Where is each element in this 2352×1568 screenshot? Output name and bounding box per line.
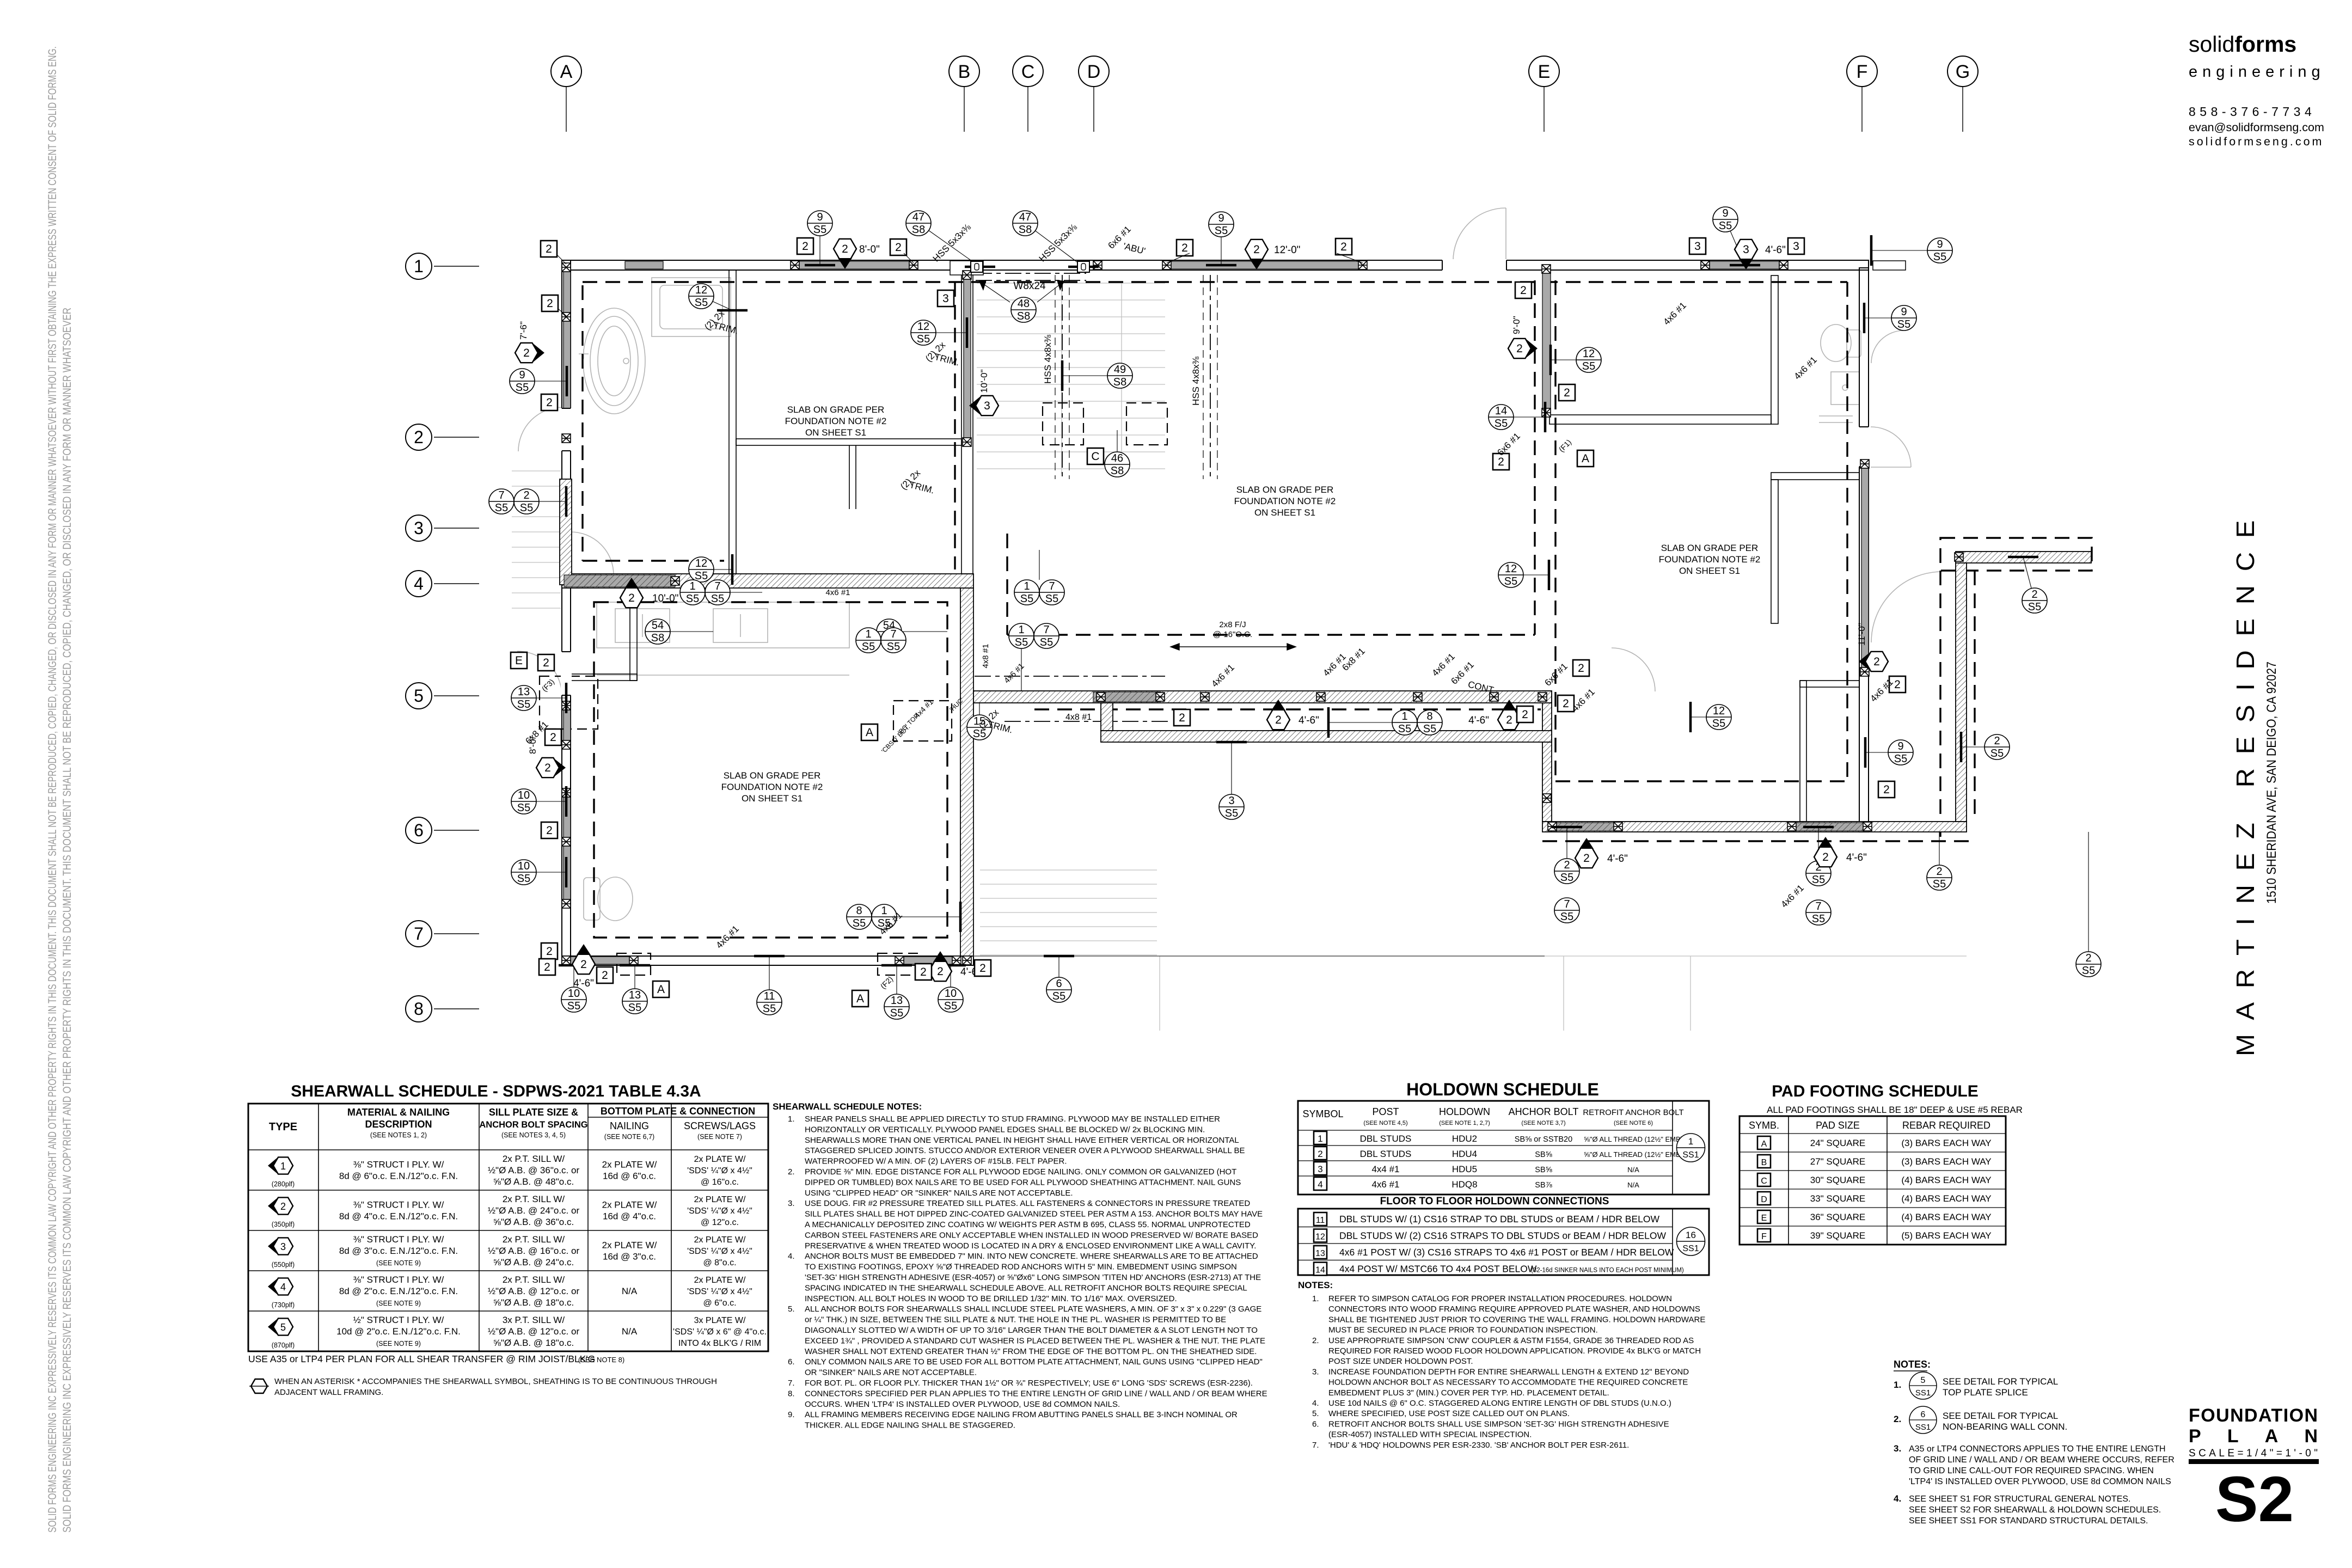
svg-text:SB⅝: SB⅝	[1535, 1150, 1552, 1159]
svg-text:E: E	[515, 654, 523, 667]
svg-text:8d @ 2"o.c. E.N./12"o.c. F.N.: 8d @ 2"o.c. E.N./12"o.c. F.N.	[339, 1286, 458, 1296]
door openings (wall cuts)	[1442, 259, 1506, 271]
svg-text:2: 2	[1340, 241, 1347, 253]
svg-text:13: 13	[629, 989, 641, 1001]
svg-text:2: 2	[1563, 697, 1569, 710]
svg-text:DBL STUDS W/ (1) CS16 STRAP TO: DBL STUDS W/ (1) CS16 STRAP TO DBL STUDS…	[1339, 1214, 1659, 1224]
wing inner dashed	[1846, 282, 1848, 779]
svg-text:HSS 4x8x⅜: HSS 4x8x⅜	[1043, 334, 1053, 384]
svg-text:'HDU' & 'HDQ' HOLDOWNS PER ESR: 'HDU' & 'HDQ' HOLDOWNS PER ESR-2330. 'SB…	[1328, 1441, 1629, 1450]
svg-text:ALL PAD FOOTINGS SHALL BE 18": ALL PAD FOOTINGS SHALL BE 18" DEEP & USE…	[1767, 1105, 2023, 1115]
svg-text:HSS 4x8x⅜: HSS 4x8x⅜	[1191, 356, 1201, 406]
svg-text:2: 2	[544, 762, 551, 774]
svg-text:SS1: SS1	[1915, 1388, 1931, 1398]
svg-text:S5: S5	[1504, 575, 1517, 587]
svg-text:USE A35 or LTP4 PER PLAN FOR A: USE A35 or LTP4 PER PLAN FOR ALL SHEAR T…	[248, 1353, 595, 1364]
svg-text:5.: 5.	[788, 1304, 795, 1314]
svg-text:½" STRUCT I PLY. W/: ½" STRUCT I PLY. W/	[353, 1315, 444, 1325]
svg-text:HOLDOWN ANCHOR BOLT AS NECESSA: HOLDOWN ANCHOR BOLT AS NECESSARY TO ACCO…	[1328, 1378, 1688, 1387]
svg-text:7'-6": 7'-6"	[518, 321, 529, 340]
svg-text:13: 13	[1315, 1249, 1325, 1258]
svg-text:3: 3	[942, 292, 949, 305]
svg-text:ON SHEET S1: ON SHEET S1	[805, 427, 866, 438]
svg-text:EMBEDMENT PLUS 3" (MIN.) COVER: EMBEDMENT PLUS 3" (MIN.) COVER PER TYP. …	[1328, 1388, 1609, 1398]
svg-text:(3) BARS EACH WAY: (3) BARS EACH WAY	[1901, 1138, 1991, 1148]
svg-text:SHEAR PANELS SHALL BE APPLIED: SHEAR PANELS SHALL BE APPLIED DIRECTLY T…	[805, 1114, 1220, 1124]
top exterior wall	[562, 260, 1869, 270]
svg-text:S5: S5	[567, 1000, 580, 1012]
svg-text:PRESERVATIVE & WHEN TREATED WO: PRESERVATIVE & WHEN TREATED WOOD IS LOCA…	[805, 1241, 1256, 1251]
svg-text:3: 3	[1694, 240, 1701, 253]
HSS4x8 columns dashdot	[1062, 275, 1063, 479]
svg-text:(SEE NOTE 4,5): (SEE NOTE 4,5)	[1363, 1120, 1407, 1126]
svg-text:2x P.T. SILL W/: 2x P.T. SILL W/	[503, 1234, 565, 1245]
svg-text:46: 46	[1111, 452, 1123, 464]
svg-text:S5: S5	[628, 1002, 641, 1014]
svg-text:S5: S5	[1560, 872, 1573, 884]
svg-text:REBAR REQUIRED: REBAR REQUIRED	[1902, 1120, 1990, 1131]
svg-text:S5: S5	[520, 502, 533, 514]
svg-text:(SEE NOTE 7): (SEE NOTE 7)	[697, 1133, 742, 1141]
svg-text:FLOOR TO FLOOR HOLDOWN CONNECT: FLOOR TO FLOOR HOLDOWN CONNECTIONS	[1380, 1196, 1609, 1207]
svg-text:2.: 2.	[788, 1167, 795, 1177]
svg-text:(280plf): (280plf)	[272, 1180, 295, 1188]
svg-text:2: 2	[1894, 678, 1901, 691]
svg-text:@ 8"o.c.: @ 8"o.c.	[703, 1258, 736, 1267]
svg-text:TOP PLATE SPLICE: TOP PLATE SPLICE	[1943, 1387, 2028, 1398]
upper-left room dashed	[581, 285, 583, 561]
svg-text:6.: 6.	[1312, 1419, 1319, 1429]
svg-text:NOTES:: NOTES:	[1298, 1280, 1333, 1290]
svg-text:S5: S5	[2082, 965, 2095, 977]
svg-text:HDU2: HDU2	[1452, 1134, 1477, 1144]
svg-text:2: 2	[1520, 284, 1527, 297]
svg-text:(4) BARS EACH WAY: (4) BARS EACH WAY	[1901, 1212, 1991, 1222]
svg-text:(4) BARS EACH WAY: (4) BARS EACH WAY	[1901, 1175, 1991, 1185]
svg-text:2x P.T. SILL W/: 2x P.T. SILL W/	[503, 1154, 565, 1164]
svg-text:48: 48	[1018, 298, 1030, 310]
svg-text:PAD FOOTING SCHEDULE: PAD FOOTING SCHEDULE	[1772, 1082, 1978, 1100]
svg-text:3.: 3.	[1312, 1367, 1319, 1376]
svg-text:S8: S8	[1111, 465, 1124, 477]
svg-text:1.: 1.	[788, 1114, 795, 1124]
svg-text:4'-6": 4'-6"	[1607, 853, 1628, 865]
svg-text:2: 2	[1564, 387, 1570, 399]
svg-text:7: 7	[414, 924, 424, 944]
svg-text:S5: S5	[1812, 913, 1825, 925]
svg-text:8'-0": 8'-0"	[859, 244, 880, 255]
svg-text:S5: S5	[917, 333, 930, 345]
interior wall horizontal T	[736, 439, 961, 445]
svg-text:9'-0": 9'-0"	[1511, 316, 1522, 334]
svg-text:2: 2	[550, 731, 556, 744]
svg-text:9: 9	[1897, 740, 1903, 752]
svg-text:4.: 4.	[1312, 1399, 1319, 1408]
svg-text:S5: S5	[853, 917, 866, 929]
svg-text:DIPPED OR TUMBLED) BOX NAILS A: DIPPED OR TUMBLED) BOX NAILS ARE TO BE U…	[805, 1178, 1241, 1187]
svg-text:USE 10d NAILS @ 6" O.C. STAGGE: USE 10d NAILS @ 6" O.C. STAGGERED ALONG …	[1328, 1399, 1671, 1408]
svg-text:S8: S8	[651, 632, 664, 644]
slab dashed line under top wall	[583, 281, 1847, 283]
svg-text:S8: S8	[1019, 224, 1032, 236]
svg-text:S5: S5	[1045, 593, 1058, 605]
svg-text:8: 8	[1426, 710, 1432, 722]
towel bars	[1819, 415, 1853, 416]
svg-text:2.: 2.	[1312, 1336, 1319, 1345]
gray shear panels: wing bottom	[1552, 823, 1619, 831]
svg-text:B: B	[1761, 1158, 1767, 1167]
svg-text:2: 2	[1181, 242, 1188, 254]
svg-text:DBL STUDS W/ (2) CS16 STRAPS T: DBL STUDS W/ (2) CS16 STRAPS TO DBL STUD…	[1339, 1230, 1666, 1241]
svg-text:2: 2	[580, 958, 587, 971]
svg-text:2x PLATE W/: 2x PLATE W/	[694, 1195, 746, 1204]
svg-text:POST SIZE UNDER HOLDOWN POST.: POST SIZE UNDER HOLDOWN POST.	[1328, 1357, 1473, 1366]
svg-text:(870plf): (870plf)	[272, 1342, 295, 1349]
svg-text:S5: S5	[517, 873, 530, 885]
site lines lower right	[1160, 955, 1967, 957]
svg-text:⅜" STRUCT I PLY. W/: ⅜" STRUCT I PLY. W/	[353, 1200, 444, 1210]
svg-text:S5: S5	[1215, 225, 1228, 237]
svg-text:2x PLATE W/: 2x PLATE W/	[694, 1155, 746, 1164]
svg-text:2: 2	[1873, 656, 1880, 668]
svg-text:DBL STUDS: DBL STUDS	[1360, 1134, 1412, 1144]
svg-text:12: 12	[1505, 563, 1517, 575]
svg-text:FOR BOT. PL. OR FLOOR PLY. TH: FOR BOT. PL. OR FLOOR PLY. THICKER THAN …	[805, 1379, 1253, 1388]
svg-text:SYMB.: SYMB.	[1749, 1120, 1779, 1131]
left wall hatched segment	[560, 479, 572, 585]
svg-text:REFER TO SIMPSON CATALOG FOR P: REFER TO SIMPSON CATALOG FOR PROPER INST…	[1328, 1294, 1672, 1303]
bathtub	[583, 308, 645, 414]
svg-text:1: 1	[414, 256, 424, 276]
svg-text:HOLDOWN SCHEDULE: HOLDOWN SCHEDULE	[1406, 1080, 1599, 1099]
svg-text:S8: S8	[1113, 376, 1126, 388]
svg-text:S8: S8	[1017, 310, 1030, 322]
wing bottom dashed	[1542, 840, 1971, 842]
svg-text:THICKER. ALL EDGE NAILING SHA: THICKER. ALL EDGE NAILING SHALL BE STAGG…	[805, 1421, 1015, 1430]
svg-text:S5: S5	[1225, 807, 1238, 819]
svg-text:A: A	[1761, 1140, 1767, 1149]
svg-text:SILL PLATE SIZE &: SILL PLATE SIZE &	[489, 1107, 578, 1118]
svg-text:4: 4	[280, 1282, 286, 1293]
svg-text:9: 9	[519, 369, 525, 381]
svg-text:S5: S5	[813, 224, 826, 236]
svg-text:S5: S5	[1990, 748, 2004, 759]
svg-text:REQUIRED FOR RAISED WOOD FLOOR: REQUIRED FOR RAISED WOOD FLOOR HOLDOWN A…	[1328, 1346, 1701, 1356]
svg-text:2: 2	[1936, 866, 1942, 878]
wing bottom retaining wall (hatched)	[1542, 822, 1967, 832]
svg-text:F: F	[1761, 1232, 1767, 1241]
svg-text:S5: S5	[517, 699, 530, 710]
svg-text:6.: 6.	[788, 1357, 795, 1367]
svg-text:S5: S5	[1052, 990, 1065, 1002]
svg-text:WHERE SPECIFIED, USE POST SIZE: WHERE SPECIFIED, USE POST SIZE CALLED OU…	[1328, 1409, 1570, 1418]
svg-text:(SEE NOTE 9): (SEE NOTE 9)	[376, 1259, 421, 1267]
svg-text:(SEE NOTE 9): (SEE NOTE 9)	[376, 1340, 421, 1347]
svg-text:10: 10	[518, 860, 530, 872]
mid retaining wall (hatched)	[562, 574, 973, 588]
svg-text:11: 11	[764, 990, 775, 1002]
shower pan closet	[652, 278, 731, 336]
svg-text:2: 2	[546, 243, 552, 255]
svg-text:1.: 1.	[1894, 1380, 1901, 1390]
svg-text:C: C	[1761, 1177, 1767, 1186]
svg-text:2: 2	[1994, 735, 2000, 747]
exterior steps left	[512, 470, 561, 471]
svg-text:⅝"Ø ALL THREAD (12½" EMB): ⅝"Ø ALL THREAD (12½" EMB)	[1584, 1150, 1683, 1159]
svg-text:8d @ 6"o.c. E.N./12"o.c. F.N.: 8d @ 6"o.c. E.N./12"o.c. F.N.	[339, 1171, 458, 1181]
svg-text:FOUNDATION: FOUNDATION	[2189, 1405, 2318, 1426]
svg-text:2: 2	[1822, 851, 1829, 863]
svg-text:½"Ø A.B. @ 12"o.c. or: ½"Ø A.B. @ 12"o.c. or	[488, 1286, 580, 1296]
svg-text:INCREASE FOUNDATION DEPTH FOR: INCREASE FOUNDATION DEPTH FOR ENTIRE SHE…	[1328, 1367, 1689, 1376]
garage bottom wall	[562, 956, 973, 965]
svg-text:ANCHOR BOLT SPACING: ANCHOR BOLT SPACING	[479, 1120, 587, 1130]
svg-text:POST: POST	[1372, 1106, 1399, 1117]
svg-text:N/A: N/A	[622, 1326, 638, 1337]
svg-text:SHEARWALL SCHEDULE - SDPWS-202: SHEARWALL SCHEDULE - SDPWS-2021 TABLE 4.…	[291, 1082, 701, 1100]
svg-text:INSPECTION. ALL BOLT HOLES IN: INSPECTION. ALL BOLT HOLES IN WOOD TO BE…	[805, 1294, 1177, 1303]
svg-text:2: 2	[1883, 783, 1890, 796]
svg-text:2x PLATE W/: 2x PLATE W/	[602, 1200, 657, 1210]
svg-text:solidformseng.com: solidformseng.com	[2189, 135, 2324, 148]
svg-text:'SDS' ¼"Ø x 4½": 'SDS' ¼"Ø x 4½"	[687, 1206, 752, 1216]
svg-text:2: 2	[1253, 243, 1260, 256]
svg-text:NAILING: NAILING	[610, 1120, 649, 1131]
svg-text:2: 2	[1564, 859, 1570, 871]
svg-text:A: A	[657, 983, 665, 996]
svg-text:D: D	[1087, 62, 1101, 82]
svg-text:SEE DETAIL FOR TYPICAL: SEE DETAIL FOR TYPICAL	[1943, 1376, 2058, 1387]
right exterior wall	[1859, 268, 1869, 832]
svg-text:(SEE NOTE 6,7): (SEE NOTE 6,7)	[604, 1133, 654, 1141]
svg-text:(SEE NOTE 6): (SEE NOTE 6)	[1614, 1120, 1653, 1126]
svg-text:S5: S5	[1894, 753, 1907, 765]
W8x24 beam	[976, 273, 1086, 274]
svg-text:SOLID FORMS ENGINEERING INC EX: SOLID FORMS ENGINEERING INC EXPRESSIVELY…	[61, 308, 73, 1533]
svg-text:SS1: SS1	[1915, 1423, 1931, 1432]
svg-text:14: 14	[1315, 1266, 1325, 1275]
svg-text:CARBON STEEL FASTENERS ARE ONL: CARBON STEEL FASTENERS ARE ONLY ACCEPTAB…	[805, 1230, 1258, 1240]
svg-text:TO EXISTING FOOTINGS, EPOXY ⅝": TO EXISTING FOOTINGS, EPOXY ⅝"Ø THREADED…	[805, 1263, 1237, 1272]
svg-text:2: 2	[1578, 662, 1584, 675]
svg-text:2x PLATE W/: 2x PLATE W/	[694, 1276, 746, 1285]
corridor connector (hatched)	[1101, 703, 1113, 731]
svg-text:54: 54	[652, 620, 664, 632]
svg-text:S5: S5	[1582, 360, 1595, 372]
svg-text:12: 12	[1583, 348, 1595, 360]
door arcs	[1453, 208, 1506, 261]
svg-text:2: 2	[628, 592, 635, 604]
gray shear panels: top wall	[795, 261, 914, 269]
svg-text:FOUNDATION NOTE #2: FOUNDATION NOTE #2	[785, 416, 887, 426]
svg-text:2: 2	[523, 347, 530, 359]
svg-text:S5: S5	[695, 297, 708, 309]
shearwall type hexagons	[515, 343, 538, 363]
svg-text:4.: 4.	[1894, 1493, 1901, 1504]
gray shear panel: right wall 11ft	[1861, 468, 1869, 669]
svg-text:(SEE NOTE 8): (SEE NOTE 8)	[578, 1356, 624, 1364]
svg-text:7: 7	[714, 580, 720, 592]
svg-text:16d @ 3"o.c.: 16d @ 3"o.c.	[603, 1252, 656, 1262]
svg-text:14: 14	[1495, 405, 1507, 417]
svg-text:10d @ 2"o.c. E.N./12"o.c. F.N.: 10d @ 2"o.c. E.N./12"o.c. F.N.	[336, 1326, 461, 1337]
svg-text:1: 1	[1024, 580, 1030, 592]
svg-text:11: 11	[1316, 1216, 1325, 1225]
svg-text:ONLY COMMON NAILS ARE TO BE US: ONLY COMMON NAILS ARE TO BE USED FOR ALL…	[805, 1357, 1263, 1367]
svg-text:USE DOUG. FIR #2 PRESSURE TREA: USE DOUG. FIR #2 PRESSURE TREATED SILL P…	[805, 1199, 1250, 1208]
callout bubbles with leaders	[819, 223, 820, 265]
svg-text:STAGGERED SPLICED JOINTS. STU: STAGGERED SPLICED JOINTS. STUCCO AND/OR …	[805, 1146, 1245, 1155]
svg-text:3: 3	[1793, 240, 1799, 253]
gray shear panel: corridor band	[1093, 692, 1161, 702]
svg-text:4: 4	[1318, 1179, 1322, 1190]
svg-text:1.: 1.	[1312, 1294, 1319, 1303]
svg-text:7: 7	[1049, 580, 1055, 592]
svg-text:47: 47	[1019, 211, 1031, 223]
svg-text:(SEE NOTES 1, 2): (SEE NOTES 1, 2)	[370, 1131, 427, 1139]
svg-text:S5: S5	[1020, 593, 1033, 605]
svg-text:ALL ANCHOR BOLTS FOR SHEARWALL: ALL ANCHOR BOLTS FOR SHEARWALLS SHALL IN…	[805, 1304, 1261, 1314]
svg-text:FOUNDATION NOTE #2: FOUNDATION NOTE #2	[721, 782, 823, 792]
svg-text:F: F	[1857, 62, 1868, 82]
svg-text:engineering: engineering	[2189, 63, 2325, 81]
svg-text:7.: 7.	[788, 1379, 795, 1388]
svg-text:SLAB ON GRADE PER: SLAB ON GRADE PER	[1236, 485, 1334, 495]
svg-text:5: 5	[414, 686, 424, 706]
svg-text:7.: 7.	[1312, 1441, 1319, 1450]
svg-text:SEE SHEET S1 FOR STRUCTURAL GE: SEE SHEET S1 FOR STRUCTURAL GENERAL NOTE…	[1909, 1494, 2131, 1504]
svg-text:2: 2	[543, 657, 549, 669]
gray shear panels: left wall	[563, 270, 571, 315]
svg-text:10: 10	[945, 988, 957, 1000]
interior wall bath/closet	[729, 270, 736, 574]
top wall window notch	[950, 261, 983, 275]
svg-text:1: 1	[1018, 624, 1024, 636]
svg-text:SLAB ON GRADE PER: SLAB ON GRADE PER	[724, 770, 821, 781]
toilet lower-left	[584, 878, 600, 920]
svg-text:S5: S5	[1712, 718, 1725, 730]
svg-text:@ 16"O.C.: @ 16"O.C.	[1213, 630, 1252, 639]
svg-text:S5: S5	[1933, 251, 1946, 263]
svg-text:OCCURS. WHEN 'LTP4' IS INSTAL: OCCURS. WHEN 'LTP4' IS INSTALLED OVER PL…	[805, 1400, 1120, 1409]
svg-text:SB⅝: SB⅝	[1535, 1166, 1552, 1174]
svg-text:7: 7	[890, 628, 896, 640]
svg-text:USE APPROPRIATE SIMPSON 'CNW': USE APPROPRIATE SIMPSON 'CNW' COUPLER & …	[1328, 1336, 1694, 1345]
svg-text:SS1: SS1	[1682, 1244, 1699, 1253]
svg-text:S5: S5	[1897, 318, 1910, 330]
svg-text:1: 1	[280, 1161, 286, 1172]
vanity with two sinks	[597, 602, 849, 648]
svg-text:1: 1	[1401, 710, 1407, 722]
svg-text:47: 47	[912, 211, 924, 223]
gray shear panels: garage bottom	[571, 957, 635, 964]
svg-text:½"Ø A.B. @ 36"o.c. or: ½"Ø A.B. @ 36"o.c. or	[488, 1165, 580, 1175]
svg-text:1: 1	[881, 905, 887, 917]
svg-text:2: 2	[602, 969, 608, 982]
svg-text:DIAGONALLY SLOTTED W/ A WIDTH: DIAGONALLY SLOTTED W/ A WIDTH OF UP TO 3…	[805, 1326, 1258, 1335]
svg-text:⅝"Ø A.B. @ 36"o.c.: ⅝"Ø A.B. @ 36"o.c.	[493, 1217, 574, 1227]
svg-text:DBL STUDS: DBL STUDS	[1360, 1149, 1412, 1159]
patio dashed	[1940, 538, 2092, 571]
svg-text:(3) BARS EACH WAY: (3) BARS EACH WAY	[1901, 1156, 1991, 1167]
svg-text:⅝"Ø ALL THREAD (12½" EMB): ⅝"Ø ALL THREAD (12½" EMB)	[1584, 1135, 1683, 1143]
svg-text:C: C	[1021, 62, 1035, 82]
svg-text:A: A	[1582, 452, 1589, 465]
svg-text:1: 1	[865, 628, 871, 640]
svg-text:7: 7	[1564, 898, 1570, 910]
svg-text:⅝"Ø A.B. @ 18"o.c.: ⅝"Ø A.B. @ 18"o.c.	[493, 1338, 574, 1348]
left exterior wall	[562, 260, 571, 964]
garage wc partition	[630, 588, 637, 681]
svg-text:S5: S5	[1015, 636, 1028, 648]
svg-text:SEE SHEET SS1 FOR STANDARD STR: SEE SHEET SS1 FOR STANDARD STRUCTURAL DE…	[1909, 1516, 2148, 1526]
svg-text:S5: S5	[686, 593, 699, 605]
patio right retaining wall (hatched)	[1956, 563, 1967, 822]
svg-text:CONNECTORS SPECIFIED PER PLAN: CONNECTORS SPECIFIED PER PLAN APPLIES TO…	[805, 1389, 1267, 1398]
svg-text:@ 12"o.c.: @ 12"o.c.	[701, 1218, 739, 1227]
svg-text:39" SQUARE: 39" SQUARE	[1810, 1230, 1865, 1241]
svg-text:ANCHOR BOLTS MUST BE EMBEDDED: ANCHOR BOLTS MUST BE EMBEDDED 7" MIN. IN…	[805, 1252, 1258, 1261]
svg-text:S5: S5	[1812, 874, 1825, 886]
svg-text:SEE SHEET S2 FOR SHEARWALL & H: SEE SHEET S2 FOR SHEARWALL & HOLDOWN SCH…	[1909, 1505, 2161, 1515]
svg-text:4x6 #1: 4x6 #1	[1371, 1179, 1399, 1190]
interior wall closet/stair (shear)	[961, 270, 973, 574]
svg-text:(SEE NOTE 9): (SEE NOTE 9)	[376, 1300, 421, 1307]
square callouts	[541, 241, 557, 257]
svg-text:MUST BE SECURED IN PLACE PRIOR: MUST BE SECURED IN PLACE PRIOR TO FOUNDA…	[1328, 1326, 1598, 1335]
svg-text:(SEE NOTES 3, 4, 5): (SEE NOTES 3, 4, 5)	[501, 1131, 566, 1139]
svg-text:N/A: N/A	[1627, 1166, 1639, 1174]
svg-text:2: 2	[523, 489, 529, 501]
svg-text:1: 1	[1688, 1136, 1693, 1147]
svg-text:4x4 #1: 4x4 #1	[1371, 1164, 1399, 1174]
svg-text:or ¼" THK.) IN SIZE, BETWEEN T: or ¼" THK.) IN SIZE, BETWEEN THE SILL PL…	[805, 1315, 1226, 1325]
svg-text:½"Ø A.B. @ 12"o.c. or: ½"Ø A.B. @ 12"o.c. or	[488, 1326, 580, 1337]
svg-text:S5: S5	[516, 382, 529, 394]
svg-text:2: 2	[2031, 589, 2037, 601]
svg-text:WASHER SHALL NOT EXTEND GREATE: WASHER SHALL NOT EXTEND GREATER THAN ½" …	[805, 1347, 1257, 1356]
svg-text:2: 2	[547, 297, 553, 310]
svg-text:9: 9	[1722, 207, 1728, 219]
svg-text:5.: 5.	[1312, 1409, 1319, 1418]
svg-text:INTO 4x BLK'G / RIM: INTO 4x BLK'G / RIM	[678, 1339, 761, 1348]
svg-text:USING "CLIPPED HEAD" OR "SINKE: USING "CLIPPED HEAD" OR "SINKER" NAILS A…	[805, 1189, 1073, 1198]
svg-text:HDU5: HDU5	[1452, 1164, 1477, 1174]
svg-text:12: 12	[1713, 705, 1725, 717]
svg-text:⅝"Ø A.B. @ 18"o.c.: ⅝"Ø A.B. @ 18"o.c.	[493, 1297, 574, 1308]
svg-text:(ESR-4057) INSTALLED WITH SPEC: (ESR-4057) INSTALLED WITH SPECIAL INSPEC…	[1328, 1430, 1532, 1440]
svg-text:2: 2	[1275, 714, 1282, 726]
svg-text:⅝"Ø A.B. @ 24"o.c.: ⅝"Ø A.B. @ 24"o.c.	[493, 1257, 574, 1267]
svg-text:(5) BARS EACH WAY: (5) BARS EACH WAY	[1901, 1230, 1991, 1241]
svg-text:9: 9	[1937, 238, 1943, 250]
wing left retaining wall (hatched)	[1542, 691, 1552, 822]
svg-text:S5: S5	[711, 593, 724, 605]
svg-text:3.: 3.	[1894, 1443, 1901, 1454]
svg-text:S5: S5	[2028, 601, 2041, 613]
gray shear panel: mid band overlay	[564, 575, 675, 587]
svg-text:@ 6"o.c.: @ 6"o.c.	[703, 1298, 736, 1308]
svg-text:C: C	[1091, 450, 1099, 463]
svg-text:A MECHANICALLY DEPOSITED ZINC: A MECHANICALLY DEPOSITED ZINC COATING W/…	[805, 1220, 1251, 1229]
svg-text:N/A: N/A	[1627, 1181, 1639, 1189]
svg-text:1: 1	[1318, 1134, 1322, 1144]
svg-text:SS1: SS1	[1682, 1150, 1699, 1160]
svg-text:1510 SHERIDAN AVE, SAN DEIGO,: 1510 SHERIDAN AVE, SAN DEIGO, CA 92027	[2264, 661, 2279, 904]
svg-text:(SEE NOTE 1, 2,7): (SEE NOTE 1, 2,7)	[1439, 1120, 1490, 1126]
svg-text:D: D	[1761, 1195, 1767, 1204]
svg-text:12: 12	[695, 284, 707, 296]
